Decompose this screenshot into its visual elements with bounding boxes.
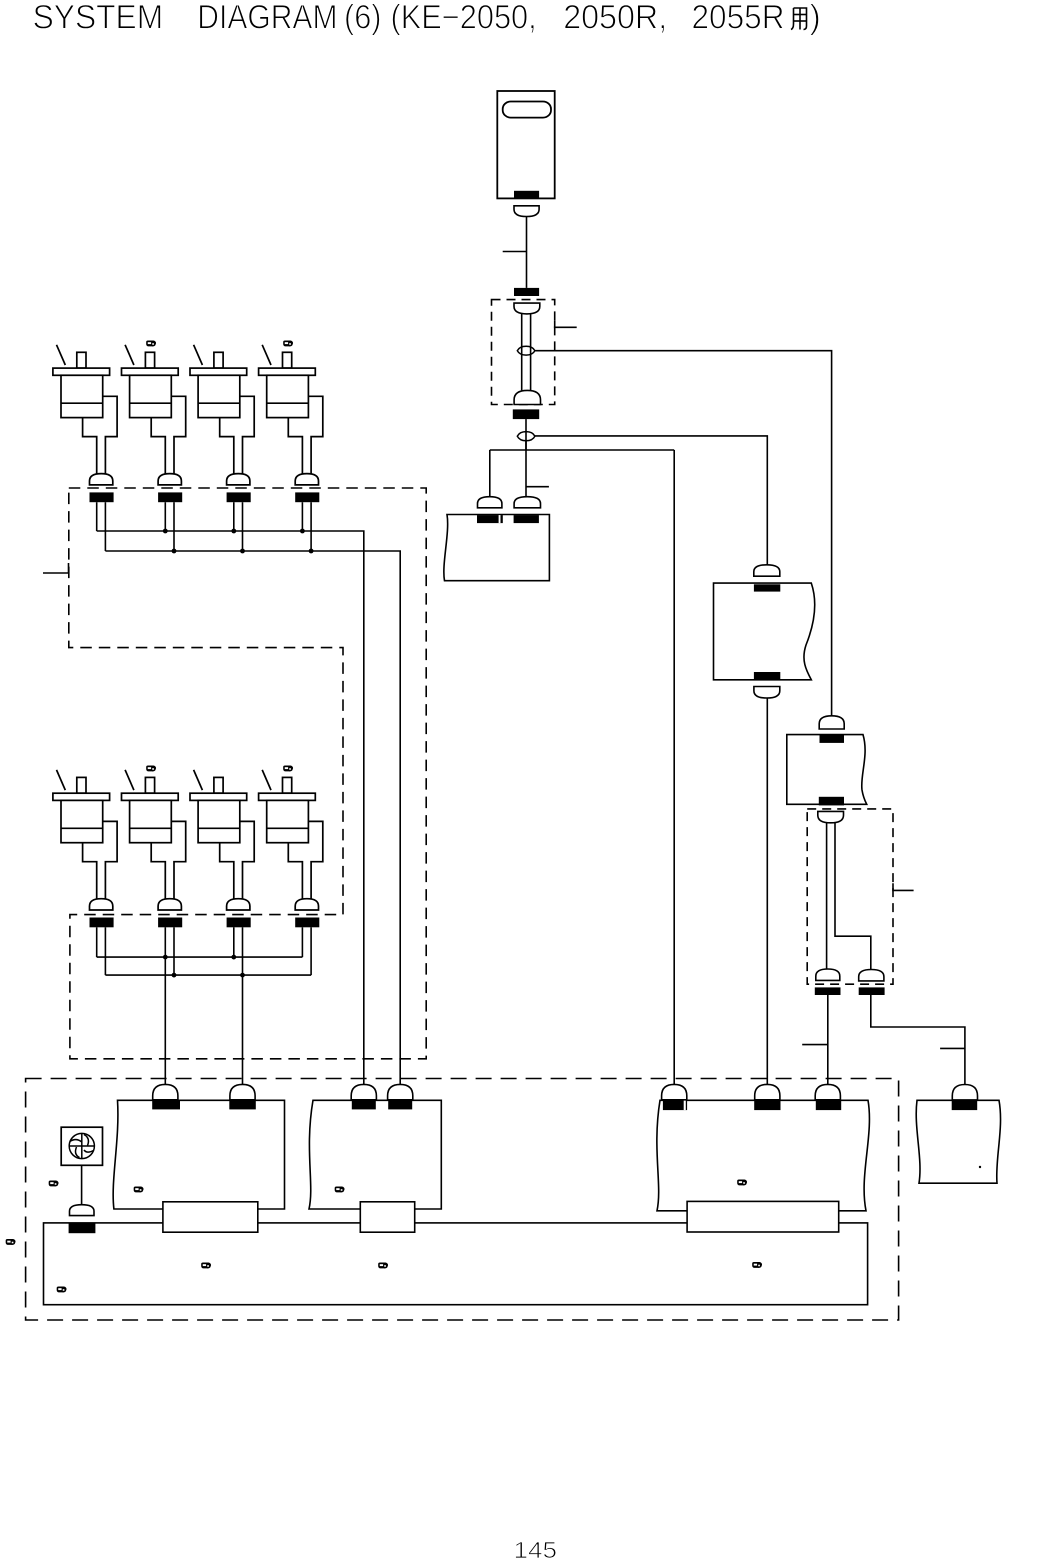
bottom box 3 with torn edges (657, 1100, 870, 1211)
wire below connector block to lower ellipse (525, 419, 527, 450)
dashed group boundary around solenoid connector rows (69, 488, 426, 1059)
bottom dome box1-1 (153, 1084, 178, 1099)
box B connector block top (820, 735, 845, 743)
left branch down to dome (489, 450, 491, 497)
wire from lower ellipse right then down to box A dome (535, 436, 767, 565)
ellipse junction on wire (517, 432, 535, 441)
bottom dome box4 (952, 1085, 977, 1100)
top unit box (497, 91, 554, 198)
bottom box2 connector blocks (352, 1100, 376, 1109)
fan connector block on bar (69, 1223, 96, 1233)
box A with torn right edge (714, 583, 815, 680)
tick on left dashed boundary (43, 563, 69, 573)
row1 device drop wires (96, 502, 98, 531)
tiny dot in box4 (979, 1166, 981, 1168)
part label above device4 row2 (283, 766, 293, 772)
box A connector block bottom (754, 672, 780, 680)
bottom box 4 with torn edges (916, 1100, 1000, 1183)
lower assembly connector block right (859, 987, 885, 995)
junction dots row1 buses (163, 529, 314, 978)
svg-text:): ) (810, 0, 821, 36)
bottom dome box2-1 (351, 1084, 376, 1099)
svg-text:SYSTEM: SYSTEM (33, 0, 164, 36)
fan stem wire (81, 1165, 83, 1204)
box B dome above (819, 716, 844, 729)
part label outside dashed box left (6, 1239, 16, 1245)
solenoid row 1 (53, 345, 117, 502)
box B connector block bottom (819, 797, 844, 806)
ellipse junction on tube (517, 346, 535, 355)
tube wires in lower dashed assembly (826, 823, 828, 969)
part label left of fan (49, 1181, 59, 1187)
part label on bar 3 (752, 1262, 762, 1268)
wire from mid ellipse junction to right then down to box B dome (535, 351, 832, 717)
tick right of top dashed box (555, 321, 577, 328)
lower cable plug dome (up) (514, 390, 540, 404)
bottom dome box2-2 (388, 1084, 413, 1099)
fan blades (69, 1133, 94, 1158)
wire from box A lower dome down to bottom box 3 (766, 698, 768, 1085)
inline connector block above dashed assembly (514, 288, 539, 296)
long terminal bar (44, 1223, 868, 1305)
lower assembly right dome (859, 970, 884, 981)
lower assembly connector block left (815, 987, 841, 995)
wire from left lower connector to bottom box 3 (827, 995, 829, 1085)
part label on bar left (57, 1287, 67, 1293)
bottom box3 connector blocks (663, 1100, 687, 1110)
row1 bus lower wire with corner drop (105, 551, 400, 1085)
part label above device4 row1 (283, 341, 293, 347)
row1 bus upper wire with corner drop (97, 531, 364, 1085)
box B dome below (down) (818, 811, 844, 822)
branch wire junction horizontal (490, 449, 674, 451)
fan plug dome (70, 1205, 95, 1216)
title text (33, 0, 821, 36)
svg-text:2055R: 2055R (692, 0, 785, 36)
part label in box3 (737, 1180, 747, 1186)
part label right of fan stem (134, 1187, 144, 1193)
box C connector block right (514, 515, 539, 523)
right branch long drop to bottom box 3 (673, 450, 675, 1085)
top unit connector block (514, 191, 539, 198)
relay block on bar below box1 (163, 1202, 258, 1232)
lower assembly left dome (816, 969, 840, 980)
box A dome above (754, 565, 780, 576)
tick on that wire (940, 1047, 965, 1049)
tick on that wire (802, 1044, 828, 1046)
svg-text:145: 145 (514, 1537, 558, 1563)
tick on top wire (503, 251, 527, 253)
bottom dome box3-1 (662, 1084, 687, 1099)
row2 bus upper wire (97, 956, 303, 958)
tick on main wire (526, 486, 549, 488)
relay block on bar below box2 (360, 1202, 414, 1232)
box B with torn right edge (787, 735, 867, 805)
box A connector block top (754, 584, 780, 591)
svg-text:2050R,: 2050R, (563, 0, 667, 36)
large dashed enclosure at bottom (26, 1079, 899, 1321)
box C connector block left (477, 515, 503, 523)
dashed box around lower right cable assembly (807, 809, 893, 984)
bottom box1 connector blocks (152, 1100, 180, 1109)
bottom box 2 with torn left edge (309, 1100, 441, 1209)
dome into box C left (478, 497, 502, 508)
part label in box2 (335, 1187, 345, 1193)
main wire down to dome (525, 441, 527, 497)
bottom box4 connector block (952, 1100, 978, 1110)
junction dots row2 buses (163, 955, 168, 960)
bottom dome box3-3 (815, 1084, 840, 1099)
dashed box around top cable assembly (492, 300, 555, 405)
tick right of lower dashed box (893, 883, 914, 890)
part label above device2 row1 (146, 341, 156, 347)
box C with torn left edge (444, 515, 550, 581)
row2 bus lower wire (105, 974, 311, 976)
row2 device drop wires (96, 927, 98, 957)
part label on bar 2 (378, 1263, 388, 1269)
wire from right lower connector to bottom box 4 (871, 995, 965, 1085)
wire from top unit to connector (526, 217, 528, 288)
box A dome below (down) (754, 687, 780, 699)
part label on bar 1 (201, 1263, 211, 1269)
dome into box C right (514, 497, 540, 508)
kanji YOU (use) drawn as strokes (791, 8, 807, 30)
upper cable plug dome (down) (514, 303, 540, 314)
fan unit box (61, 1127, 102, 1165)
svg-text:(KE−2050,: (KE−2050, (391, 0, 537, 36)
bottom dome box1-2 (230, 1084, 255, 1099)
part label above device2 row2 (146, 766, 156, 772)
bottom box 1 with torn left edge (113, 1100, 284, 1209)
relay block on bar below box3 (687, 1201, 839, 1232)
svg-text:(6): (6) (344, 0, 382, 36)
solenoid row 2 (53, 770, 117, 927)
top unit plug dome (514, 206, 539, 217)
bottom dome box3-2 (755, 1084, 780, 1099)
connector block below dashed assembly (513, 409, 539, 419)
svg-text:DIAGRAM: DIAGRAM (197, 0, 337, 36)
tube wires in top dashed assembly (521, 314, 523, 391)
